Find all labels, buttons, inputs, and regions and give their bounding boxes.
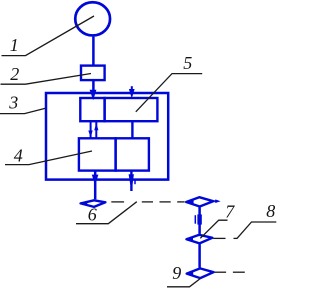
svg-text:9: 9: [172, 263, 181, 283]
svg-text:4: 4: [14, 146, 23, 166]
svg-text:5: 5: [183, 53, 192, 73]
svg-text:7: 7: [225, 202, 235, 222]
svg-text:8: 8: [266, 201, 275, 221]
svg-text:1: 1: [10, 35, 19, 55]
svg-text:2: 2: [10, 64, 19, 84]
svg-text:6: 6: [88, 205, 97, 225]
svg-text:3: 3: [8, 93, 18, 113]
